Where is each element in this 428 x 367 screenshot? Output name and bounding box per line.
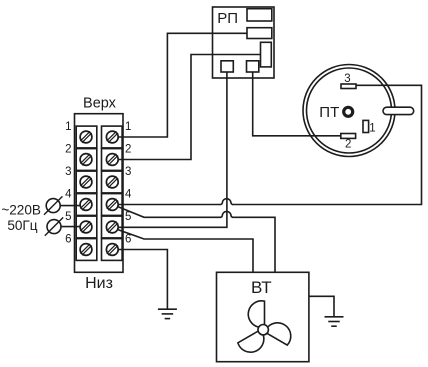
svg-text:Верх: Верх xyxy=(83,96,117,112)
svg-text:3: 3 xyxy=(125,166,131,178)
svg-text:2: 2 xyxy=(125,144,131,156)
svg-text:5: 5 xyxy=(65,211,71,223)
svg-text:ПТ: ПТ xyxy=(319,104,339,121)
svg-text:3: 3 xyxy=(344,73,350,85)
svg-text:ВТ: ВТ xyxy=(251,278,272,297)
svg-text:5: 5 xyxy=(125,211,131,223)
svg-text:4: 4 xyxy=(125,189,132,201)
svg-text:4: 4 xyxy=(65,189,72,201)
svg-text:Низ: Низ xyxy=(85,275,113,292)
svg-text:1: 1 xyxy=(65,121,71,133)
svg-text:6: 6 xyxy=(125,234,131,246)
svg-text:РП: РП xyxy=(217,10,238,27)
svg-text:2: 2 xyxy=(65,144,71,156)
svg-text:1: 1 xyxy=(125,121,131,133)
svg-text:3: 3 xyxy=(65,166,71,178)
svg-text:1: 1 xyxy=(369,122,375,134)
svg-text:6: 6 xyxy=(65,234,71,246)
svg-text:50Гц: 50Гц xyxy=(7,218,37,233)
svg-text:~220В: ~220В xyxy=(1,202,41,217)
svg-text:2: 2 xyxy=(345,139,351,151)
